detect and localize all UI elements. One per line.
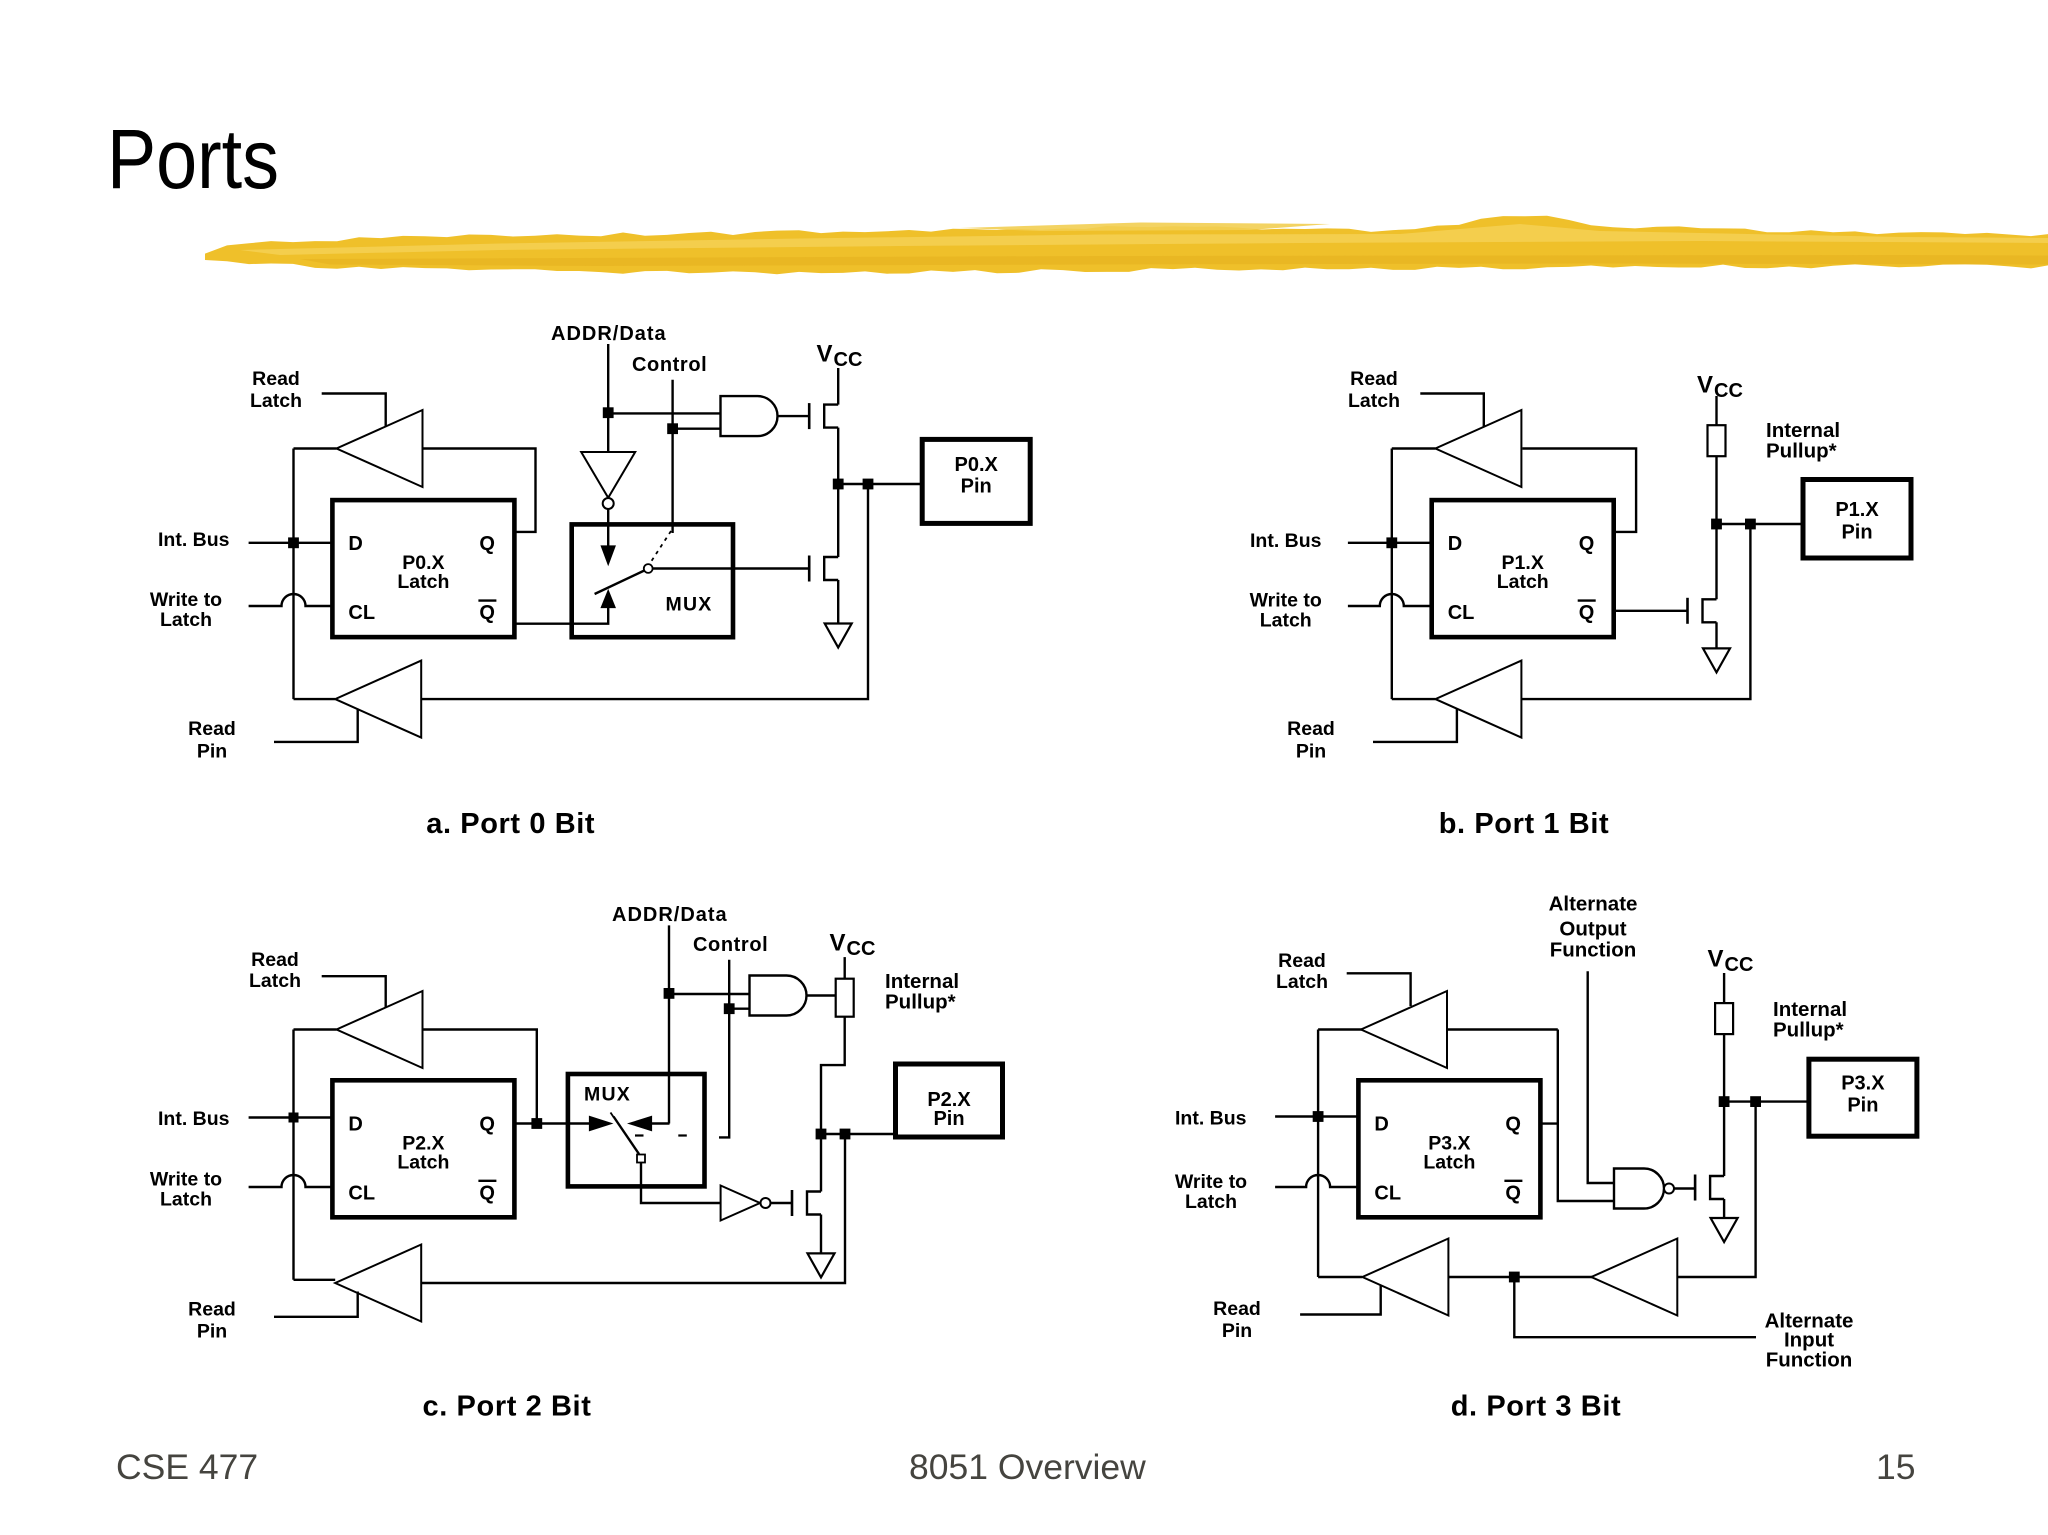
svg-text:Latch: Latch xyxy=(1260,610,1312,632)
svg-text:Int. Bus: Int. Bus xyxy=(1175,1108,1247,1130)
svg-text:P1.X: P1.X xyxy=(1835,499,1879,521)
svg-text:Control: Control xyxy=(632,354,707,376)
svg-text:Pullup*: Pullup* xyxy=(1766,440,1837,463)
svg-text:Q: Q xyxy=(479,602,495,624)
svg-text:Q: Q xyxy=(1505,1113,1521,1135)
svg-text:D: D xyxy=(1374,1113,1388,1135)
svg-text:V: V xyxy=(1708,946,1724,973)
svg-text:Q: Q xyxy=(1505,1182,1521,1204)
svg-text:Ports: Ports xyxy=(107,112,279,206)
svg-text:P0.X: P0.X xyxy=(955,454,999,476)
svg-text:D: D xyxy=(348,1113,362,1135)
svg-text:CC: CC xyxy=(1714,380,1743,402)
svg-text:Write to: Write to xyxy=(150,1169,222,1191)
svg-text:MUX: MUX xyxy=(584,1084,631,1106)
svg-text:15: 15 xyxy=(1876,1447,1916,1487)
svg-text:Read: Read xyxy=(188,718,236,740)
svg-text:MUX: MUX xyxy=(666,594,713,616)
svg-text:Control: Control xyxy=(693,934,768,956)
svg-text:CL: CL xyxy=(1448,602,1475,624)
svg-text:ADDR/Data: ADDR/Data xyxy=(551,323,667,345)
svg-text:Function: Function xyxy=(1550,939,1637,962)
svg-text:D: D xyxy=(348,533,362,555)
svg-text:c. Port 2 Bit: c. Port 2 Bit xyxy=(423,1391,592,1423)
svg-text:Pin: Pin xyxy=(1847,1094,1878,1116)
svg-text:Read: Read xyxy=(188,1299,236,1321)
svg-text:Latch: Latch xyxy=(397,1151,449,1173)
svg-text:Latch: Latch xyxy=(1423,1151,1475,1173)
svg-text:Latch: Latch xyxy=(1276,971,1328,993)
svg-text:Q: Q xyxy=(479,1113,495,1135)
svg-text:Latch: Latch xyxy=(160,1189,212,1211)
svg-text:Int. Bus: Int. Bus xyxy=(158,529,230,551)
svg-text:Read: Read xyxy=(1287,718,1335,740)
svg-text:Pin: Pin xyxy=(933,1108,964,1130)
svg-text:Read: Read xyxy=(1213,1298,1261,1320)
svg-text:Read: Read xyxy=(252,368,300,390)
svg-text:Q: Q xyxy=(1579,602,1595,624)
svg-text:V: V xyxy=(1697,372,1713,399)
svg-text:Q: Q xyxy=(1579,533,1595,555)
svg-text:Q: Q xyxy=(479,1182,495,1204)
svg-text:Pin: Pin xyxy=(1222,1320,1252,1342)
svg-text:CC: CC xyxy=(1725,954,1754,976)
svg-text:Read: Read xyxy=(251,949,299,971)
svg-text:CL: CL xyxy=(348,1182,375,1204)
svg-text:CC: CC xyxy=(834,349,863,371)
svg-text:Read: Read xyxy=(1350,368,1398,390)
svg-text:Q: Q xyxy=(479,533,495,555)
svg-text:Pullup*: Pullup* xyxy=(885,991,956,1014)
svg-text:V: V xyxy=(817,341,833,368)
svg-text:Pullup*: Pullup* xyxy=(1773,1019,1844,1042)
svg-text:Int. Bus: Int. Bus xyxy=(1250,530,1322,552)
svg-text:Latch: Latch xyxy=(160,609,212,631)
svg-text:a. Port 0 Bit: a. Port 0 Bit xyxy=(426,808,595,840)
svg-text:Alternate: Alternate xyxy=(1549,893,1638,916)
svg-text:CL: CL xyxy=(1374,1182,1401,1204)
svg-text:ADDR/Data: ADDR/Data xyxy=(612,904,728,926)
svg-text:Int. Bus: Int. Bus xyxy=(158,1108,230,1130)
svg-text:d. Port 3 Bit: d. Port 3 Bit xyxy=(1451,1391,1622,1423)
svg-text:Function: Function xyxy=(1766,1349,1853,1372)
svg-text:Pin: Pin xyxy=(197,741,227,763)
svg-text:Latch: Latch xyxy=(1348,390,1400,412)
svg-text:Write to: Write to xyxy=(1250,590,1322,612)
svg-text:CL: CL xyxy=(348,602,375,624)
svg-text:b. Port 1 Bit: b. Port 1 Bit xyxy=(1439,808,1610,840)
svg-text:8051 Overview: 8051 Overview xyxy=(909,1447,1146,1487)
svg-text:Pin: Pin xyxy=(197,1321,227,1343)
svg-text:D: D xyxy=(1448,533,1462,555)
svg-text:P3.X: P3.X xyxy=(1841,1072,1885,1094)
svg-text:Write to: Write to xyxy=(1175,1171,1247,1193)
svg-text:Latch: Latch xyxy=(1497,571,1549,593)
svg-text:CSE 477: CSE 477 xyxy=(116,1447,258,1487)
svg-text:Pin: Pin xyxy=(961,475,992,497)
svg-text:Output: Output xyxy=(1559,918,1626,941)
svg-text:CC: CC xyxy=(847,938,876,960)
svg-text:Write to: Write to xyxy=(150,589,222,611)
svg-text:Pin: Pin xyxy=(1841,521,1872,543)
svg-text:Latch: Latch xyxy=(397,571,449,593)
svg-text:Latch: Latch xyxy=(1185,1191,1237,1213)
svg-text:Latch: Latch xyxy=(250,390,302,412)
svg-text:V: V xyxy=(830,930,846,957)
svg-text:Latch: Latch xyxy=(249,970,301,992)
svg-text:Pin: Pin xyxy=(1296,741,1326,763)
svg-text:Read: Read xyxy=(1278,950,1326,972)
